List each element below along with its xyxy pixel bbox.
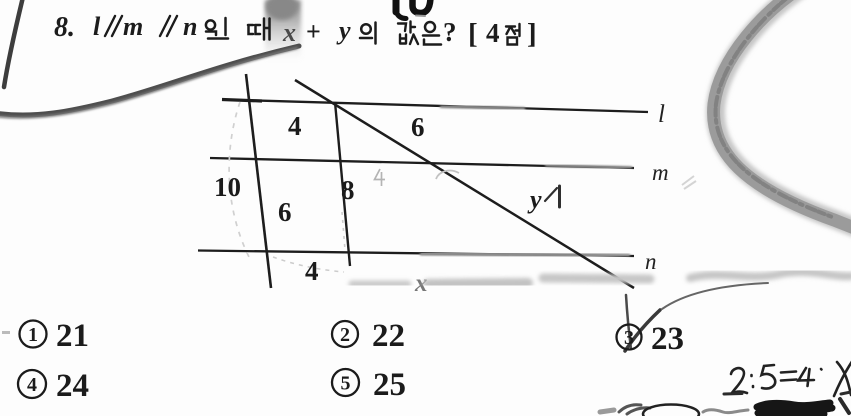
answer circle 1 — [18, 321, 642, 399]
svg-text:m: m — [652, 160, 669, 185]
faint pencil dashes right of n label — [682, 176, 696, 189]
bottom scribble row — [600, 392, 851, 416]
hangul ttae — [248, 19, 270, 40]
svg-text:?: ? — [443, 17, 457, 47]
svg-text:4: 4 — [27, 374, 37, 396]
faint pencil arc left — [229, 102, 249, 257]
title text: 8. — [54, 12, 537, 50]
svg-text:y: y — [336, 16, 351, 45]
svg-text:22: 22 — [372, 318, 405, 354]
svg-text:m: m — [123, 12, 143, 41]
svg-text:4: 4 — [288, 111, 302, 141]
svg-text:8: 8 — [341, 175, 355, 205]
figure label 4 top — [214, 111, 542, 297]
faint pencil 4 — [375, 169, 386, 186]
svg-text:+: + — [306, 17, 321, 46]
svg-text:6: 6 — [278, 197, 292, 227]
svg-text:n: n — [645, 249, 657, 274]
svg-text:1: 1 — [28, 324, 38, 346]
line n — [198, 251, 634, 257]
answer circle 4 — [18, 370, 46, 398]
line m — [210, 158, 634, 168]
hangul gap — [398, 22, 418, 45]
answer circle 5 — [332, 369, 359, 396]
svg-text:25: 25 — [373, 367, 406, 403]
handwritten 2:5=4 X — [731, 360, 851, 396]
svg-text:y: y — [527, 185, 542, 214]
hangul jeom — [506, 24, 520, 45]
diagonal transversal — [295, 80, 634, 288]
pencil slash top-left edge — [4, 0, 23, 87]
hangul ui — [360, 23, 376, 44]
faint pencil marks bottom — [273, 257, 344, 272]
line l — [222, 100, 648, 113]
parallel symbol 1 — [105, 16, 177, 36]
svg-text:[: [ — [468, 18, 478, 50]
middle transversal — [335, 102, 350, 266]
svg-text:8.: 8. — [54, 12, 75, 43]
svg-text:4: 4 — [486, 18, 500, 48]
hangul il — [206, 18, 228, 39]
svg-text:21: 21 — [56, 318, 89, 354]
eraser smudge streaks — [352, 272, 851, 284]
check mark on answer 3 — [625, 283, 768, 351]
svg-text:l: l — [658, 101, 665, 128]
svg-text:]: ] — [527, 18, 537, 50]
big pencil C curve right — [716, 0, 851, 231]
faint pencil vertical below 8 — [342, 212, 345, 250]
answer circle 2 — [332, 321, 358, 347]
handwritten bold 10 top — [396, 0, 431, 19]
pencil caret next to y — [545, 188, 557, 201]
svg-text:x: x — [282, 18, 296, 47]
svg-text:4: 4 — [305, 256, 319, 286]
parallel symbol 2 — [160, 16, 170, 36]
svg-text:2: 2 — [340, 324, 350, 346]
answer circle 3 — [617, 325, 642, 350]
svg-text:l: l — [93, 12, 101, 41]
tiny gray dash left edge — [2, 331, 10, 334]
svg-text:23: 23 — [651, 321, 684, 357]
hangul eun — [423, 22, 441, 45]
faint pencil curl — [436, 171, 459, 179]
svg-text:n: n — [183, 12, 197, 41]
pencil swoosh top-left — [0, 46, 299, 115]
svg-text:24: 24 — [56, 368, 89, 404]
svg-text:6: 6 — [411, 112, 425, 142]
left transversal — [246, 74, 271, 288]
svg-text:10: 10 — [214, 172, 241, 202]
smudge column top center — [265, 0, 301, 60]
svg-text:5: 5 — [341, 373, 351, 395]
svg-text:3: 3 — [624, 327, 634, 349]
